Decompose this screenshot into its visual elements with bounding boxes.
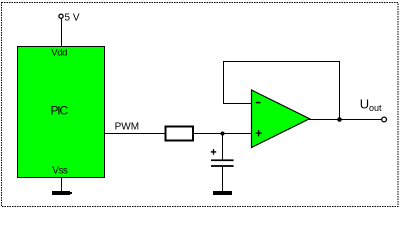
op-amp minus marker: [256, 102, 261, 104]
resistor R1: [166, 127, 194, 141]
junction node output: [337, 117, 342, 122]
capacitor C1 polarity +: [211, 151, 216, 153]
wire feedback loop: [224, 62, 340, 120]
wire Vss to ground: [61, 177, 63, 192]
wire capacitor to ground: [222, 167, 224, 192]
wire junction to capacitor: [222, 134, 224, 161]
op-amp plus marker: [256, 132, 262, 134]
svg-text:PWM: PWM: [115, 122, 139, 133]
svg-text:Vss: Vss: [52, 165, 68, 176]
PIC U1: [18, 47, 105, 178]
wire output: [309, 119, 382, 121]
terminal +5V: [59, 14, 63, 18]
svg-text:5 V: 5 V: [65, 13, 80, 24]
capacitor C1 plate top: [211, 159, 234, 161]
wire 5V to Vdd: [61, 19, 63, 48]
op-amp U2: [252, 90, 310, 148]
junction node A: [221, 132, 225, 136]
ground GND1: [52, 191, 70, 195]
svg-text:PIC: PIC: [51, 103, 69, 117]
terminal Uout: [382, 117, 387, 122]
svg-text:out: out: [369, 103, 382, 113]
wire PWM node: [105, 133, 252, 135]
ground GND2: [213, 191, 232, 195]
capacitor C1 plate bottom: [211, 165, 234, 167]
svg-text:U: U: [360, 97, 369, 112]
svg-text:Vdd: Vdd: [51, 47, 67, 58]
